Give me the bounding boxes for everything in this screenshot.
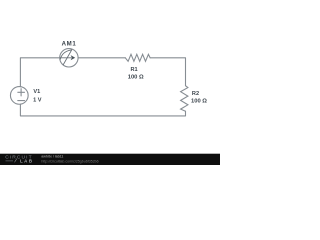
wire top-left: top-left corner to ammeter — [20, 58, 59, 87]
svg-text:http://circuitlab.com/c/25gbu6: http://circuitlab.com/c/25gbu6f352b6 — [41, 160, 98, 164]
voltage source V1 circle — [10, 87, 28, 105]
V1 plus sign — [18, 89, 25, 96]
wire: R2 to bottom-right corner, bottom wire, to V1 — [20, 104, 185, 116]
svg-text:R2: R2 — [192, 91, 199, 97]
svg-text:100 Ω: 100 Ω — [128, 74, 144, 80]
svg-text:1 V: 1 V — [33, 97, 42, 103]
ammeter needle — [63, 50, 71, 65]
svg-text:R1: R1 — [131, 67, 138, 73]
resistor R2 zigzag — [181, 86, 188, 112]
svg-text:V1: V1 — [33, 89, 40, 95]
resistor R1 zigzag — [125, 54, 150, 61]
ammeter arrow head — [71, 55, 76, 60]
svg-text:awhite / lab11: awhite / lab11 — [41, 155, 63, 159]
watermark logo LAB — [6, 159, 18, 163]
watermark bar — [0, 154, 220, 165]
wire: R1 to top-right corner down to R2 — [150, 58, 185, 86]
ammeter arrow shaft — [60, 57, 71, 59]
ammeter dial arc — [60, 50, 71, 59]
V1 minus sign — [18, 100, 25, 102]
svg-text:LAB: LAB — [20, 159, 34, 164]
ammeter AM1 circle — [60, 49, 78, 67]
svg-text:AM1: AM1 — [62, 41, 77, 48]
svg-text:100 Ω: 100 Ω — [191, 98, 207, 104]
wire: ammeter to R1 — [78, 57, 125, 59]
